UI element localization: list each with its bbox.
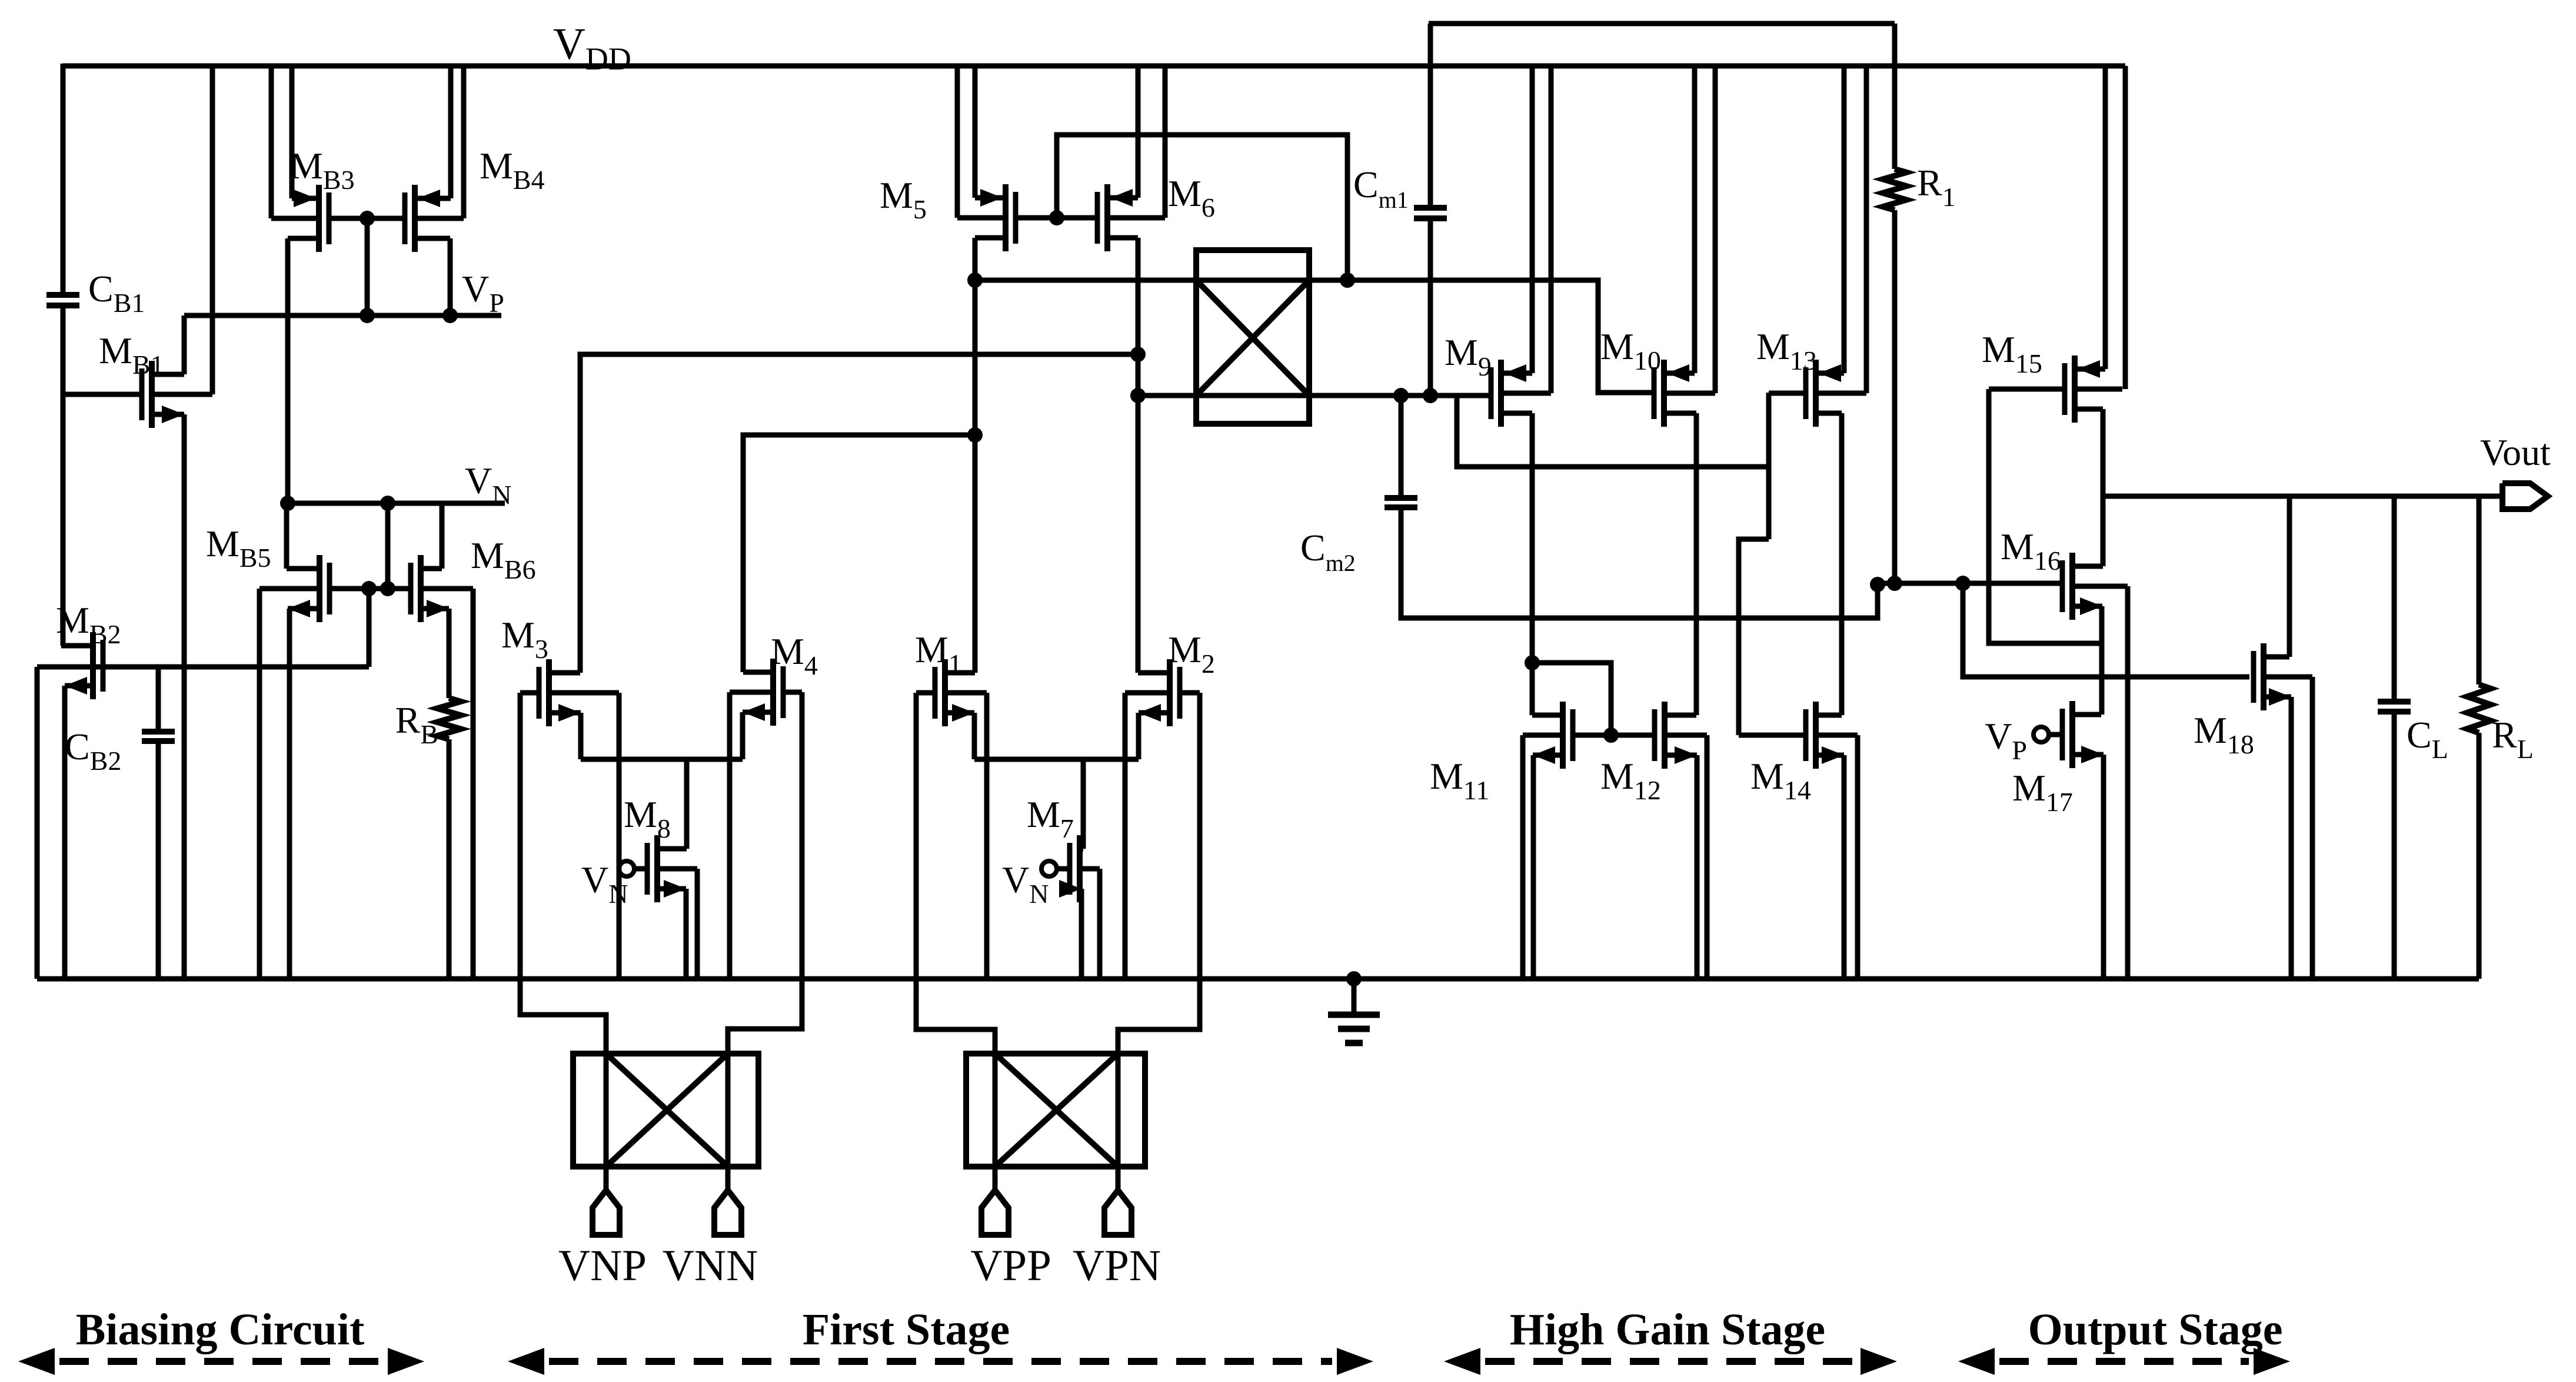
svg-text:VPN: VPN [1073, 1241, 1161, 1290]
junction Cm1 on L2 [1423, 388, 1438, 403]
L2 line: M6 drain to chopper and M9 gate [1137, 393, 1489, 398]
wire MB4 source to VDD [448, 66, 454, 198]
port Vout [2502, 483, 2548, 509]
wire M9 source to VDD [1530, 66, 1535, 373]
junction M9/M11 drain to mirror gate [1525, 655, 1540, 670]
svg-text:Output Stage: Output Stage [2028, 1305, 2283, 1354]
wire M3 gate down to chopper CH1 [520, 693, 606, 1190]
wire M4 drain up and over to M5 drain [743, 435, 975, 672]
wire MB1 drain up to VP [182, 315, 187, 374]
ground symbol [1352, 979, 1357, 1014]
svg-text:VPP: VPP [970, 1241, 1051, 1290]
wire CB1 bottom to MB1 gate and MB2 drain [61, 308, 66, 646]
dashed arrow output stage [1999, 1358, 2249, 1365]
wire M15 drain down through Vout to M16 drain [2101, 409, 2106, 566]
wire CB2 hang from gate line [156, 667, 161, 729]
wire MB6 source to RB [447, 609, 452, 698]
transistor M5 [1003, 184, 1009, 251]
junction on L1 line [1340, 273, 1355, 288]
junction Cm2 on L2 [1393, 388, 1409, 403]
capacitor Cm2 [1384, 495, 1417, 501]
VP node line [184, 313, 501, 318]
wire M4 gate down to chopper CH1 [728, 692, 802, 1190]
port VPN [1104, 1190, 1131, 1235]
wire RL from Vout line [2477, 496, 2482, 685]
wire M6 source to VDD [1136, 66, 1141, 198]
transistor MB3 [316, 185, 322, 252]
dashed arrow high gain stage [1485, 1358, 1856, 1365]
transistor M17 [2069, 701, 2075, 768]
wire M2 gate down to chopper CH3 [1118, 693, 1200, 1190]
capacitor Cm1 [1414, 205, 1447, 211]
wire gate node up to VN [385, 503, 391, 589]
resistor RL [2467, 685, 2491, 733]
wire MB5 drain up to VN [284, 503, 289, 569]
wire M18 body to ground bus [2310, 677, 2315, 979]
wire gate node down to VP [365, 218, 370, 315]
capacitor CB2 [142, 729, 175, 735]
wire M2 source to tail [1136, 713, 1141, 759]
capacitor CB1 [46, 292, 79, 298]
wire MB1 mid stub to VDD [210, 66, 215, 394]
wire RL bottom to ground bus [2477, 733, 2482, 979]
second stage output line to M16 gate [1878, 581, 2063, 586]
dashed arrow first stage [549, 1358, 1332, 1365]
wire MB4 body to VDD [461, 66, 467, 218]
VN node line [288, 501, 505, 506]
wire M1 body to ground bus [984, 693, 990, 979]
wire Cm1 bottom down to L2 [1428, 221, 1433, 396]
wire M18 drain up to Vout line [2287, 496, 2292, 657]
chopper box CH3 [966, 1054, 1145, 1167]
wire CL from Vout line [2392, 496, 2397, 699]
junction Cm2 riser on output line [1870, 577, 1885, 592]
Vout line [2103, 494, 2502, 499]
wire mirror gate branch [1532, 663, 1611, 735]
wire M7 drain up to right tail [1081, 759, 1086, 849]
junction M3 drain line [1130, 347, 1146, 362]
junction gate line to MB2 gate line [361, 581, 377, 596]
transistor M3 [546, 659, 552, 726]
VDD rail [63, 64, 2125, 69]
chopper box CH2 [1196, 250, 1309, 424]
wire M7 source to ground bus [1079, 889, 1084, 979]
node M5/M6 gates [1049, 210, 1064, 225]
MB5/MB6 gate line [330, 586, 411, 592]
transistor M8 [654, 835, 660, 902]
branch L2 to M13/M14 gates [1457, 396, 1769, 467]
wire M10 drain down to M12 drain [1694, 413, 1699, 715]
wire left edge down to ground bus [35, 667, 40, 979]
wire MB6 body to ground bus [471, 589, 476, 979]
wire MB3 drain down to VN [285, 238, 291, 503]
transistor M12 [1662, 702, 1668, 769]
wire MB5/6 gate node down to MB2 gate line [367, 589, 372, 667]
transistor M16 [2069, 553, 2075, 620]
node M5 drain / L1 [967, 273, 983, 288]
wire M10 body to VDD [1713, 66, 1718, 393]
junction to M18 gate branch [1955, 576, 1971, 591]
transistor M10 [1661, 360, 1667, 427]
wire MB4 drain down to VP [448, 238, 453, 315]
wire MB5 body to ground bus [257, 589, 262, 979]
transistor MB2 [90, 632, 96, 699]
wire M4 source to tail [740, 712, 745, 759]
wire M3 drain up and over to M6 drain [580, 354, 1138, 673]
wire MB5 source to ground bus [287, 609, 292, 979]
transistor MB4 [412, 185, 418, 252]
wire M1 source to tail [972, 713, 977, 759]
transistor M15 [2072, 356, 2078, 423]
svg-text:First Stage: First Stage [803, 1305, 1010, 1354]
node MB3/MB4 gates [360, 211, 375, 226]
wire M4 body to ground bus [727, 692, 733, 979]
transistor MB1 [149, 361, 155, 428]
wire M16 source down to M17 drain [2099, 606, 2105, 715]
left tail line M3/M4 sources [581, 757, 743, 762]
wire M15 source to VDD [2103, 66, 2108, 369]
wire M12 source to ground bus [1695, 755, 1700, 979]
transistor M13 [1813, 360, 1819, 427]
wire Cm2 top from L2 [1399, 396, 1404, 496]
wire jog to M14 gate [1739, 539, 1769, 735]
node M6 drain / L2 [1130, 388, 1146, 403]
transistor M4 [770, 659, 776, 726]
wire M16 body down to ground bus [2125, 586, 2131, 979]
capacitor CL [2378, 699, 2411, 705]
junction ground [1346, 971, 1362, 986]
wire MB3 body to VDD [269, 66, 274, 218]
chopper box CH1 [573, 1054, 758, 1167]
R1 from top rail [1892, 24, 1898, 169]
wire gate node up and over to first-stage output [1057, 135, 1347, 280]
wire VDD to CB1 [61, 64, 66, 293]
wire M6 body to VDD [1163, 66, 1168, 218]
svg-text:High Gain Stage: High Gain Stage [1510, 1305, 1825, 1354]
junction MB4 drain on VP [442, 308, 458, 323]
wire M6 drain down to M2 drain [1136, 238, 1141, 673]
junction gate node on VP [360, 308, 375, 323]
wire M8 body to ground bus [695, 869, 700, 979]
wire M18 source to ground bus [2289, 697, 2294, 979]
right tail line M1/M2 sources [974, 757, 1139, 762]
wire M13 body to VDD [1864, 66, 1869, 393]
wire M8 drain up to left tail [684, 759, 690, 849]
resistor R1 [1883, 169, 1906, 210]
junction MB3 drain on VN [280, 496, 295, 511]
svg-text:VNP: VNP [558, 1241, 647, 1290]
junction M4 drain line [967, 427, 983, 443]
M11/M12 gate line [1572, 733, 1655, 738]
wire M14 body to ground bus [1855, 735, 1861, 979]
transistor M6 [1104, 184, 1110, 251]
port VNN [714, 1190, 741, 1235]
transistor MB6 [418, 555, 424, 622]
dashed arrow biasing circuit [59, 1358, 383, 1365]
junction on VN line [380, 496, 395, 511]
transistor M9 [1498, 360, 1504, 427]
wire M7 body to ground bus [1097, 869, 1103, 979]
wire M11 body to ground bus [1520, 735, 1526, 979]
wire MB2 source to ground bus [62, 686, 68, 979]
wire M12 body to ground bus [1705, 735, 1710, 979]
wire M8 source to ground bus [684, 889, 689, 979]
resistor RB [437, 698, 461, 739]
wire Cm1 top to top rail [1428, 24, 1433, 205]
wire MB6 drain up to VN [440, 503, 445, 569]
wire M10 source to VDD [1692, 66, 1698, 373]
wire M2 body to ground bus [1123, 693, 1128, 979]
wire M3 body to ground bus [617, 693, 622, 979]
wire M14 source to ground bus [1842, 755, 1847, 979]
wire M5 drain down to M1 drain [973, 238, 978, 673]
port VPP [981, 1190, 1009, 1235]
wire branch down to M18 gate line [1963, 583, 2249, 677]
top rail (Cm1 to R1) [1429, 21, 1895, 26]
wire Cm2 bottom over to second stage output [1401, 510, 1878, 618]
transistor M18 [2261, 643, 2267, 710]
transistor M7 [1077, 835, 1083, 902]
transistor M2 [1167, 659, 1173, 726]
junction gate line to VN [380, 581, 395, 596]
wire M17 source to ground bus [2101, 755, 2106, 979]
transistor MB5 [317, 555, 322, 622]
MB2 gate line [37, 665, 369, 670]
wire MB3 source to VDD [289, 66, 295, 198]
wire M13 drain down to M14 drain [1839, 413, 1845, 715]
wire M15 gate down to M16 source [1989, 389, 2102, 643]
wire riser to M13 gate [1766, 393, 1772, 539]
transistor M11 [1560, 702, 1566, 769]
wire R1 bottom to second stage output line [1892, 210, 1898, 583]
transistor M1 [942, 659, 948, 726]
svg-text:Biasing Circuit: Biasing Circuit [76, 1305, 365, 1354]
junction on M11/M12 gate line [1603, 727, 1619, 743]
wire M13 source to VDD [1842, 66, 1847, 373]
wire MB1 source down to ground bus [182, 414, 187, 979]
L1 line: M5 drain to chopper and M10 gate [975, 280, 1652, 393]
svg-text:Vout: Vout [2480, 431, 2551, 473]
wire CB2 bottom to ground bus [156, 743, 161, 979]
wire CL bottom to ground bus [2392, 714, 2397, 979]
wire M11 source to ground bus [1531, 755, 1536, 979]
junction R1 on output line [1887, 576, 1902, 591]
svg-text:VNN: VNN [663, 1241, 758, 1290]
wire M5 source to VDD [973, 66, 978, 198]
wire M3 source to tail [578, 713, 584, 759]
wire M9 drain down to M11 drain [1530, 413, 1535, 715]
wire M1 gate down to chopper CH3 [916, 693, 995, 1190]
transistor M14 [1813, 702, 1819, 769]
port VNP [593, 1190, 620, 1235]
wire M15 body to VDD (VDD rail end) [2123, 66, 2128, 389]
ground bus [37, 976, 2479, 982]
wire M9 body to VDD [1549, 66, 1554, 393]
wire M5 body to VDD [955, 66, 960, 218]
wire RB bottom to ground bus [447, 739, 452, 979]
